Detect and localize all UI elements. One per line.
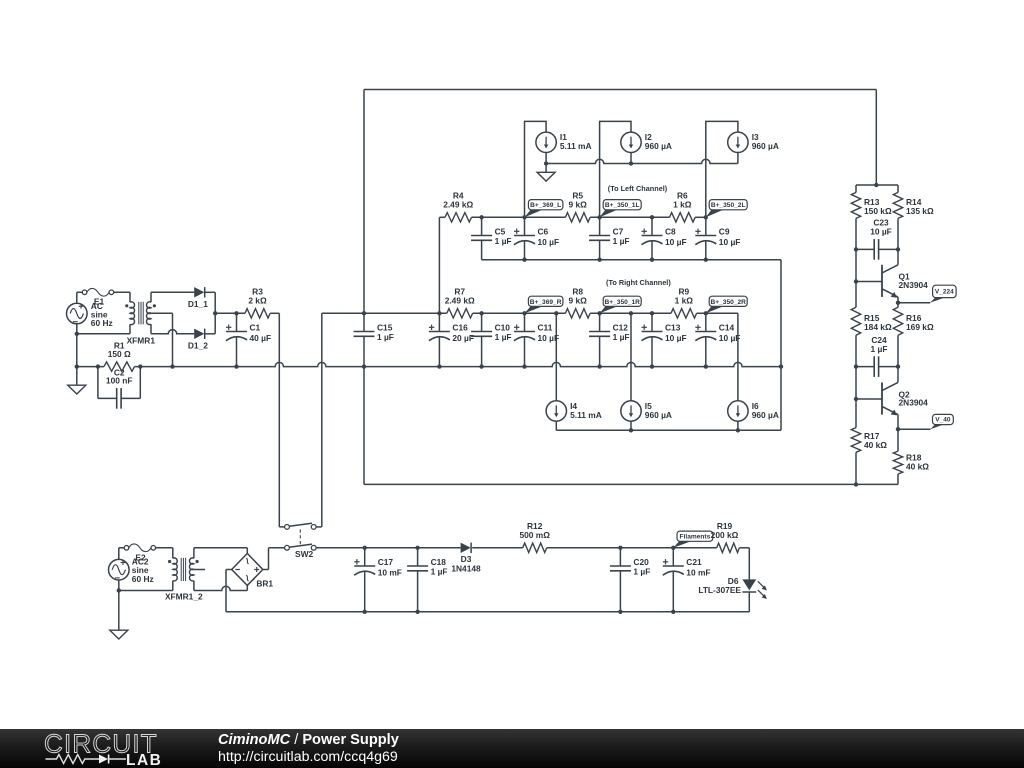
transformer XFMR1 [130,302,135,325]
svg-text:9 kΩ: 9 kΩ [569,200,588,210]
switch SW2 link [299,529,301,545]
ground at E1 [76,367,78,386]
net flag B+_369_L [525,210,543,218]
wire left column upper [855,249,857,307]
diode D1_2 [194,329,204,339]
node E2 bottom junction [117,588,121,592]
node C13 rail [650,364,654,368]
wire I-source common row [546,159,738,163]
capacitor C18 [417,548,419,566]
capacitor C12 [599,313,601,331]
terminal E2 b [151,546,156,551]
svg-text:C11: C11 [538,323,553,333]
wire main ground rail [77,366,104,368]
wire I5 bottom lead [630,421,632,430]
node C17 rail [363,610,367,614]
svg-text:SW2: SW2 [295,549,313,559]
svg-text:184 kΩ: 184 kΩ [864,322,892,332]
node C2 right junction [138,364,142,368]
svg-text:B+_369_R: B+_369_R [530,299,562,306]
resistor R5 [565,213,590,222]
node I6 bottom [736,428,740,432]
wire XFMR1 primary bottom lead [129,324,131,334]
wire R13/R14 top row [856,184,898,186]
svg-text:C8: C8 [665,227,676,237]
footer title [218,732,399,748]
svg-text:C17: C17 [378,557,394,567]
svg-text:960 µA: 960 µA [645,141,672,151]
resistor R14 [897,185,899,192]
svg-text:150 kΩ: 150 kΩ [864,206,892,216]
node Q1 base junction [854,279,858,283]
capacitor C6 [524,217,526,235]
node C14 rail [704,364,708,368]
svg-text:100 nF: 100 nF [106,376,133,386]
wire Q2 emitter lead [897,415,899,452]
svg-text:500 mΩ: 500 mΩ [519,530,550,540]
capacitor C16 [438,313,440,331]
svg-text:2.49 kΩ: 2.49 kΩ [445,296,475,306]
node mid row I4 tap [554,311,558,315]
wire XFMR1 secondary top lead [150,292,152,302]
svg-text:B+_350_2R: B+_350_2R [711,299,747,306]
wire I4 bottom lead [555,421,557,430]
svg-text:C14: C14 [719,323,735,333]
svg-text:40 µF: 40 µF [250,333,272,343]
capacitor C7 [599,217,601,235]
node mid row B+_369_R [522,311,526,315]
svg-text:10 µF: 10 µF [665,333,687,343]
net flag B+_369_R [525,306,543,313]
wire XFMR1 center tap [151,312,173,314]
node C24 right [896,364,900,368]
current source I1 [536,132,556,152]
wire E1 to XFMR1 [114,291,130,293]
svg-text:1 µF: 1 µF [377,332,394,342]
svg-text:1 µF: 1 µF [495,332,512,342]
svg-text:1 µF: 1 µF [633,567,650,577]
current source I2 [621,132,641,152]
svg-text:20 µF: 20 µF [452,333,474,343]
resistor R13 [855,185,857,192]
node Q2 emitter junction [896,427,900,431]
wire left column mid [855,367,857,428]
voltage source E1 [67,303,88,324]
switch SW2 upper pole [279,526,284,528]
footer url [218,749,398,765]
terminal E1 b [109,290,114,295]
resistor R1 [104,362,135,371]
node E1 bottom junction [75,332,79,336]
capacitor C20 [619,548,621,566]
capacitor C21 [672,548,674,566]
node C16 rail [437,364,441,368]
resistor R18 [893,451,902,474]
svg-text:(To Right Channel): (To Right Channel) [606,278,671,287]
wire XFMR1_2 center tap stub [194,569,205,571]
svg-text:1 kΩ: 1 kΩ [675,296,694,306]
capacitor C5 [481,217,483,235]
net flag B+_350_2R [706,306,723,313]
capacitor C10 [481,313,483,331]
svg-text:960 µA: 960 µA [752,141,779,151]
svg-text:B+_350_1R: B+_350_1R [605,299,641,306]
svg-text:40 kΩ: 40 kΩ [864,440,887,450]
svg-text:Filaments: Filaments [680,534,711,541]
svg-text:LTL-307EE: LTL-307EE [698,585,741,595]
node B+_369_L junction [522,215,526,219]
svg-text:960 µA: 960 µA [752,410,779,420]
current source I5 [621,401,641,421]
svg-text:10 mF: 10 mF [378,567,402,577]
svg-text:V_224: V_224 [935,289,954,296]
resistor R17 [851,428,860,453]
wire I-source bottom rail [556,429,781,431]
resistor R15 [851,307,860,335]
wire I6 top lead [737,313,739,401]
wire E2 bottom lead [118,580,120,591]
net flag B+_350_1R [600,306,618,313]
svg-text:1 µF: 1 µF [613,332,630,342]
capacitor C11 [524,313,526,331]
wire R4 left drop [438,217,440,313]
svg-text:B+_369_L: B+_369_L [530,202,561,209]
wire D1_2 cathode [205,333,215,335]
wire D1_2 anode row [151,330,194,334]
transistor Q2 2N3904 [881,382,883,414]
svg-text:1 µF: 1 µF [871,344,888,354]
terminal E2 a [124,546,129,551]
net flag V_40 [930,425,943,430]
resistor R7 [447,309,473,318]
wire E1 bottom lead [76,324,78,367]
wire I3 feed loop [706,121,738,217]
node D1 output [213,311,217,315]
switch SW2 lower pole [269,547,285,549]
resistor R19 [717,543,740,552]
svg-text:1 µF: 1 µF [613,236,630,246]
svg-text:5.11 mA: 5.11 mA [570,410,602,420]
wire XFMR1 primary top lead [129,292,131,302]
node C15 rail [362,364,366,368]
node C23 right [896,247,900,251]
resistor R12 [523,543,547,552]
loose link E1 [87,288,109,296]
wire D1_1 cathode [205,291,215,293]
node I5 bottom [629,428,633,432]
node Filaments junction [671,546,675,550]
node C8 rail [650,258,654,262]
wire R3 output drop to switch [270,312,279,314]
resistor R6 [670,213,696,222]
svg-text:V_40: V_40 [935,417,951,424]
capacitor C9 [705,217,707,235]
capacitor C13 [651,313,653,331]
node B+ feed split [874,183,878,187]
net flag Filaments [673,541,691,548]
wire V_224 stub [898,302,930,304]
capacitor C15 [363,313,365,331]
node R17 bottom [854,482,858,486]
wire I5 top lead [630,313,632,401]
node C6 rail [522,258,526,262]
wire XFMR1_2 secondary top lead [193,548,195,558]
current source I4 [546,401,566,421]
wire left-channel row [439,216,445,218]
svg-text:2N3904: 2N3904 [899,398,929,408]
svg-text:200 kΩ: 200 kΩ [711,530,739,540]
diode D3 [461,543,471,553]
svg-text:169 kΩ: 169 kΩ [906,322,934,332]
node B+_350_1L junction [597,215,601,219]
svg-text:1 kΩ: 1 kΩ [673,200,692,210]
wire left edge of B+ loop [363,90,365,314]
wire rectifier output [215,312,245,314]
terminal E1 a [82,290,87,295]
wire XFMR1_2 primary bottom lead [172,581,174,591]
node C18 rail [415,610,419,614]
wire BR1 plus output [263,569,269,571]
wire I2 bottom lead [630,153,632,164]
resistor R3 [245,309,270,318]
capacitor C8 [651,217,653,235]
capacitor C1 [236,313,238,331]
resistor R8 [565,309,590,318]
wire right return drop [780,260,782,431]
wire BR1 minus output [226,569,232,571]
wire Q1 emitter lead [897,297,899,307]
wire Q1 collector [897,249,899,264]
wire D6 cathode lead [748,592,750,612]
node mid row B+_350_2R [704,311,708,315]
capacitor C24 [856,366,874,368]
current source I3 [728,132,748,152]
bridge rectifier BR1 [232,553,263,585]
node C9 rail [704,258,708,262]
svg-text:135 kΩ: 135 kΩ [906,206,934,216]
node center tap ground [170,364,174,368]
wire bottom supply row [316,547,461,549]
net flag B+_350_2L [706,210,723,218]
svg-text:C21: C21 [686,557,702,567]
svg-text:BR1: BR1 [256,579,273,589]
node C20 rail [618,610,622,614]
wire Q2 base [856,398,882,400]
node C8 junction [650,215,654,219]
svg-text:C16: C16 [452,323,468,333]
wire R19 to D6 [748,548,750,580]
node C10 rail [479,364,483,368]
resistor R16 [893,307,902,335]
svg-text:9 kΩ: 9 kΩ [569,296,588,306]
svg-text:C9: C9 [719,227,730,237]
svg-text:150 Ω: 150 Ω [108,349,131,359]
wire V_40 stub [898,428,931,430]
wire Q2 collector [897,367,899,383]
svg-text:XFMR1_2: XFMR1_2 [165,592,203,602]
node I1 output [544,161,548,165]
svg-text:D1_2: D1_2 [188,340,208,350]
node I2 output [629,161,633,165]
svg-text:1 µF: 1 µF [431,567,448,577]
svg-text:10 mF: 10 mF [686,567,710,577]
wire I2 feed loop [600,121,631,217]
wire right feed down to R13/R14 [875,90,877,186]
node C12 rail [597,364,601,368]
svg-text:10 µF: 10 µF [719,237,741,247]
wire I6 bottom lead [737,421,739,430]
net flag V_224 [930,298,945,303]
capacitor C2 [97,367,99,399]
wire E2 top lead [118,548,120,560]
node mid row C13 [650,311,654,315]
net flag B+_350_1L [600,210,618,218]
node C20 junction [618,546,622,550]
node mid row C16/R7 left [437,311,441,315]
svg-text:2.49 kΩ: 2.49 kΩ [443,200,473,210]
wire I1 feed loop [525,121,547,217]
wire I1 bottom lead [545,153,547,164]
svg-text:LAB: LAB [126,752,162,768]
node B+_350_2L junction [704,215,708,219]
capacitor C23 [856,248,874,250]
svg-text:10 µF: 10 µF [665,237,687,247]
node E1 ground junction [75,364,79,368]
svg-text:XFMR1: XFMR1 [127,335,156,345]
wire XFMR1_2 secondary bottom lead [193,581,195,591]
loose link E2 [129,544,151,552]
node C2 left junction [96,364,100,368]
node R4-C5 junction [479,215,483,219]
svg-text:2 kΩ: 2 kΩ [248,296,267,306]
resistor R9 [671,309,697,318]
voltage source E2 [109,559,130,580]
node mid row B+_350_1R [597,311,601,315]
svg-text:1N4148: 1N4148 [451,563,481,573]
node right return at ground rail [779,364,783,368]
node C11 rail [522,364,526,368]
svg-text:C1: C1 [250,323,261,333]
capacitor C17 [364,548,366,566]
ground under I1 [545,164,547,173]
svg-text:1 µF: 1 µF [495,236,512,246]
wire Q1 base [856,281,882,283]
svg-text:5.11 mA: 5.11 mA [560,141,592,151]
svg-text:40 kΩ: 40 kΩ [906,462,929,472]
node C7 rail [597,258,601,262]
node mid row I5 tap [629,311,633,315]
capacitor C14 [705,313,707,331]
node C1 junction [234,311,238,315]
wire left-channel ground rail [482,259,781,261]
LED D6 LTL-307EE [742,579,756,590]
svg-text:C13: C13 [665,323,681,333]
wire middle B+ row [322,312,447,314]
svg-text:D1_1: D1_1 [188,299,208,309]
node mid row C10 [479,311,483,315]
transformer XFMR1_2 [173,558,177,581]
svg-text:2N3904: 2N3904 [899,280,929,290]
wire XFMR1_2 primary top lead [172,548,174,558]
svg-text:(To Left Channel): (To Left Channel) [608,184,668,193]
resistor R4 [445,213,472,222]
node C17 junction [363,546,367,550]
svg-text:60 Hz: 60 Hz [91,318,113,328]
diode D1_1 [194,287,204,297]
node C21 rail [671,610,675,614]
svg-text:B+_350_2L: B+_350_2L [711,202,746,209]
CircuitLab logo [0,729,200,768]
node C24 left [854,364,858,368]
node Q2 base junction [854,397,858,401]
wire bottom edge of loop [364,483,898,485]
wire bottom ground rail [226,611,749,613]
svg-text:60 Hz: 60 Hz [132,574,154,584]
node C1 ground [234,364,238,368]
wire left edge lower segment [363,367,365,485]
node C23 left [854,247,858,251]
svg-text:960 µA: 960 µA [645,410,672,420]
wire I4 top lead [555,313,557,401]
node mid row left edge [362,311,366,315]
svg-text:10 µF: 10 µF [870,227,892,237]
svg-text:10 µF: 10 µF [538,237,560,247]
transistor Q1 2N3904 [881,265,883,297]
wire top edge of B+ loop [364,89,876,91]
wire E1 top lead [76,292,78,303]
wire XFMR1 secondary bottom lead [150,324,152,334]
svg-text:B+_350_1L: B+_350_1L [605,202,640,209]
node C18 junction [415,546,419,550]
wire I3 bottom lead [737,153,739,164]
current source I6 [728,401,748,421]
wire E2 to XFMR1_2 [156,547,173,549]
wire B+ main drop to switch [321,313,323,527]
node Q1 emitter junction [896,301,900,305]
ground at E2 [118,591,120,631]
svg-text:C6: C6 [538,227,549,237]
